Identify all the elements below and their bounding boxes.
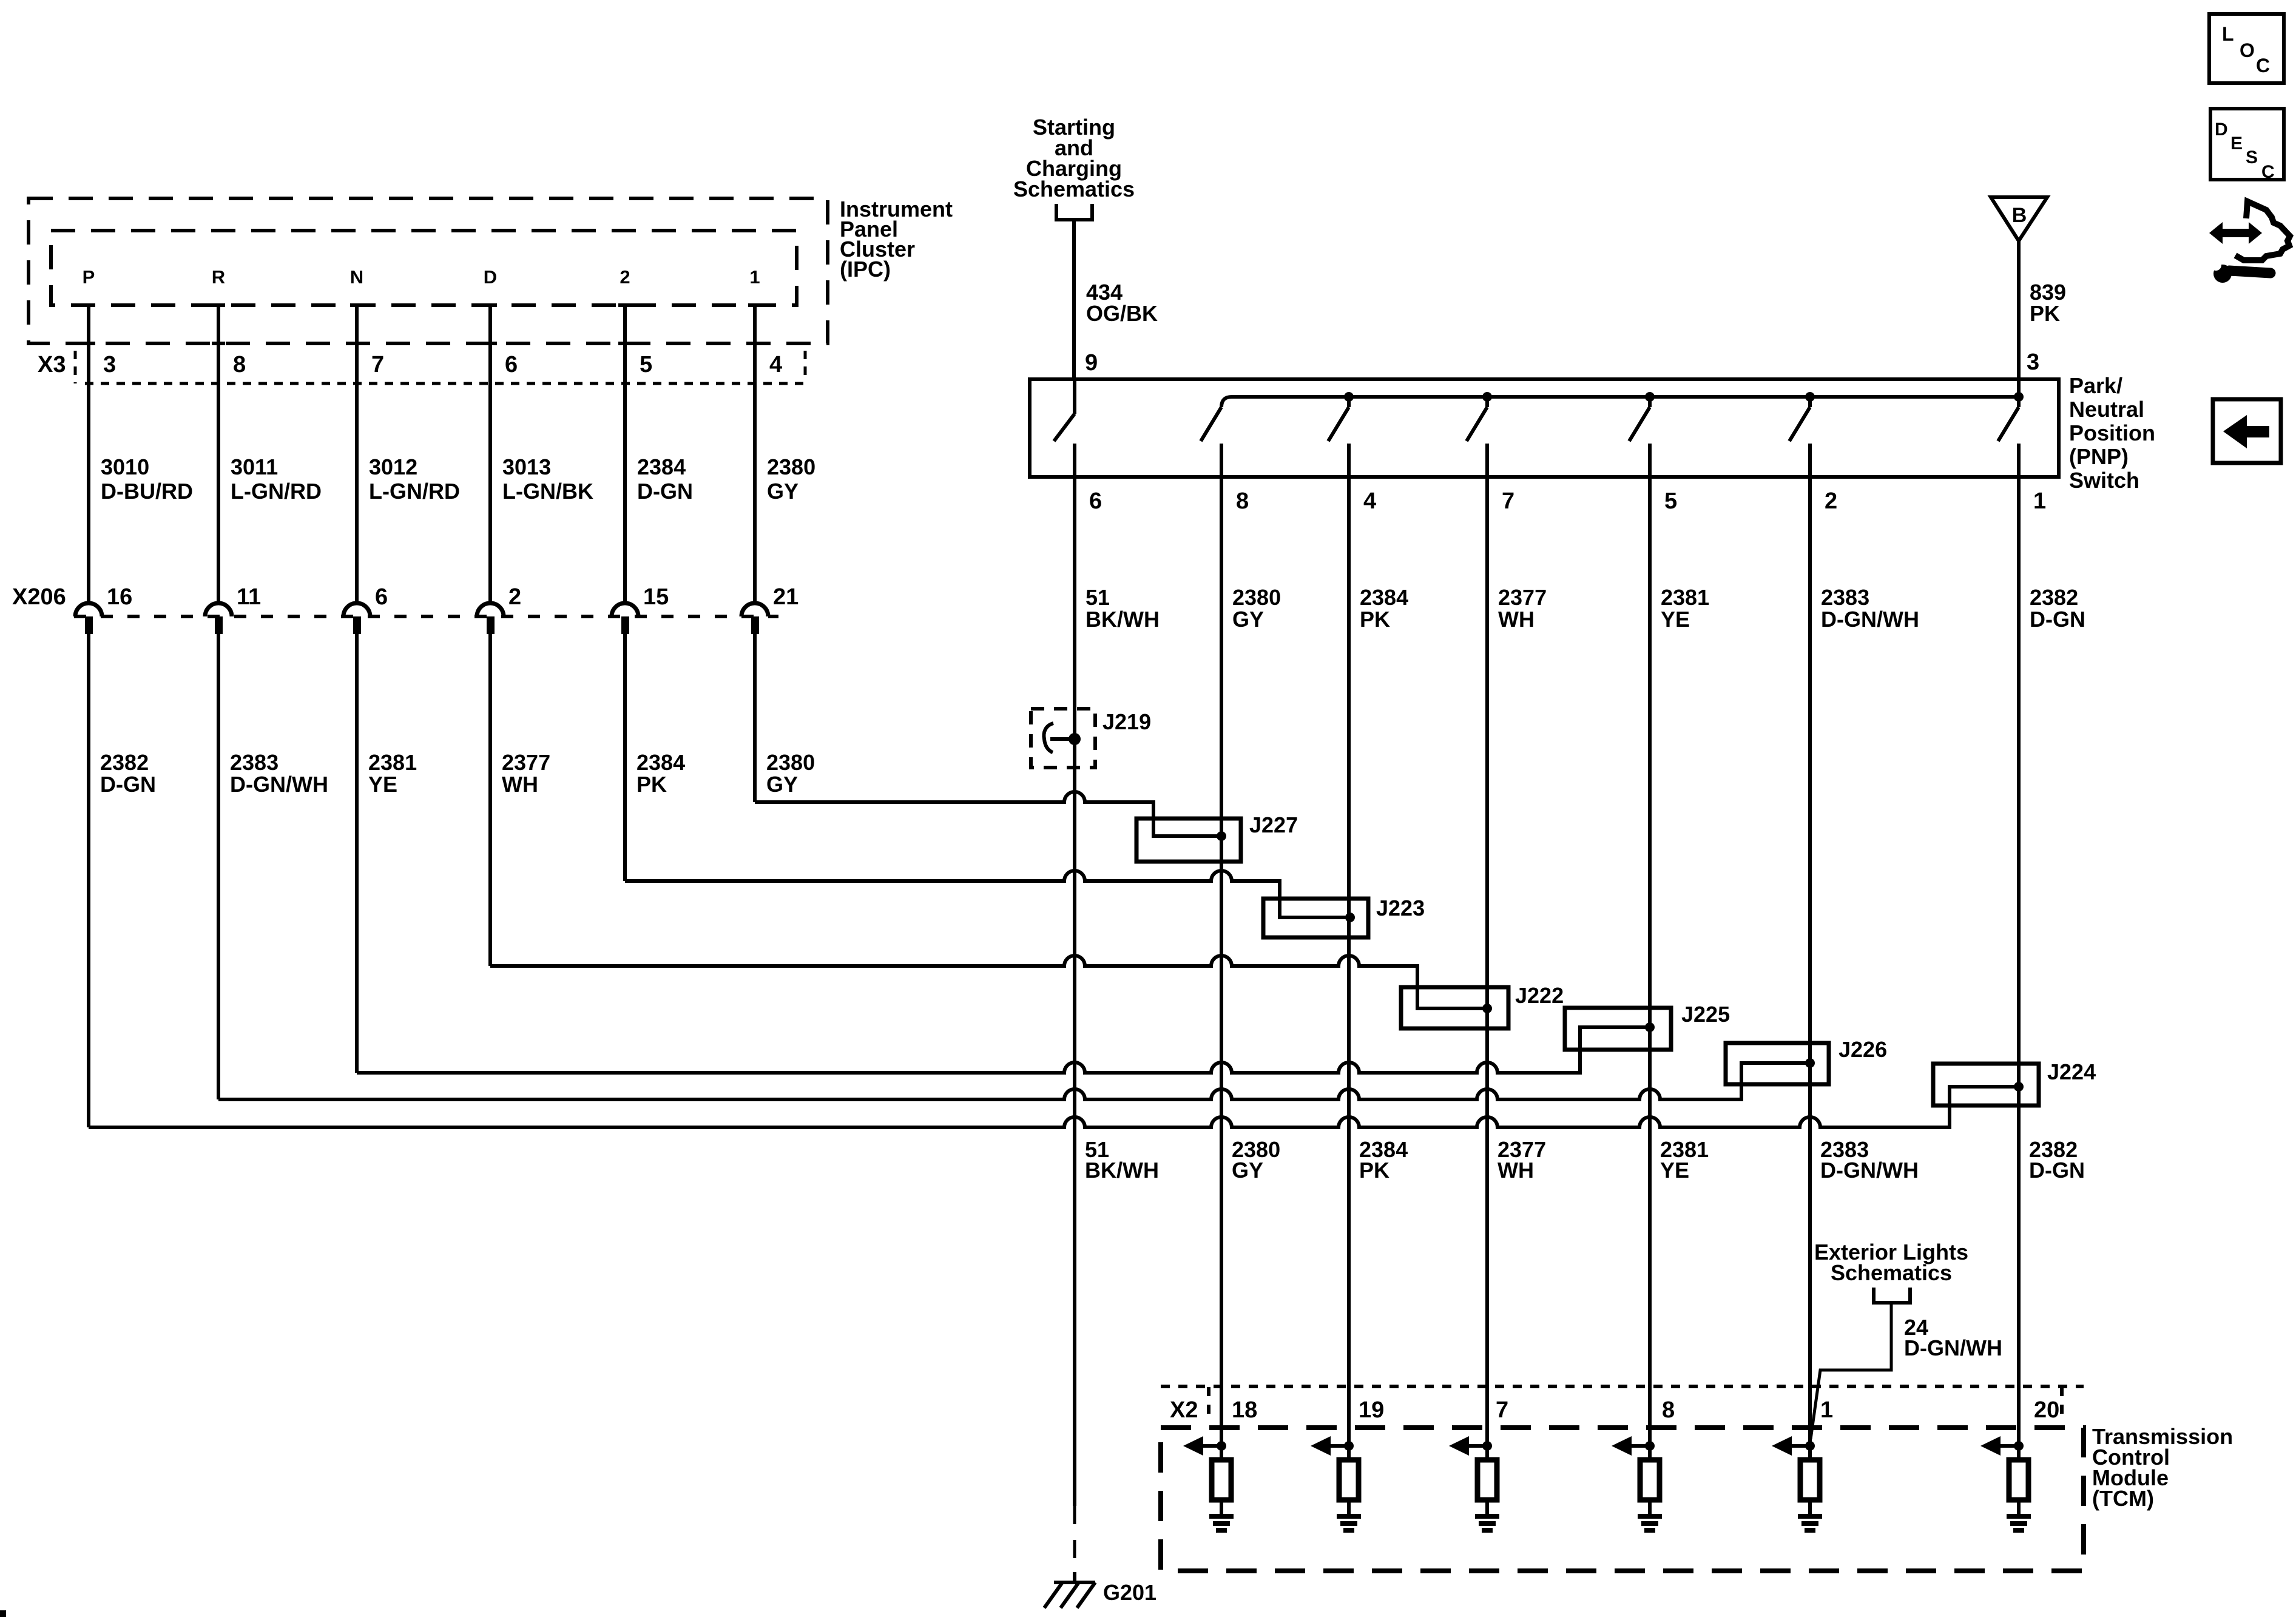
svg-text:WH: WH — [1498, 607, 1535, 632]
svg-text:C: C — [2261, 162, 2275, 182]
svg-text:8: 8 — [233, 352, 246, 377]
svg-text:4: 4 — [769, 352, 782, 377]
svg-text:PK: PK — [2030, 301, 2060, 326]
svg-text:D-BU/RD: D-BU/RD — [101, 479, 193, 504]
svg-text:21: 21 — [773, 584, 799, 610]
svg-text:PK: PK — [1360, 607, 1390, 632]
svg-text:2380: 2380 — [766, 750, 815, 775]
svg-text:PK: PK — [1359, 1158, 1389, 1183]
svg-text:3013: 3013 — [502, 454, 551, 479]
svg-text:J219: J219 — [1102, 709, 1151, 734]
svg-text:2380: 2380 — [1232, 585, 1281, 610]
svg-text:4: 4 — [1363, 488, 1376, 514]
svg-text:N: N — [350, 266, 363, 288]
svg-text:2: 2 — [620, 266, 630, 288]
svg-text:(TCM): (TCM) — [2092, 1486, 2154, 1511]
svg-text:D-GN: D-GN — [637, 479, 693, 504]
svg-text:6: 6 — [1089, 488, 1102, 514]
svg-text:D-GN/WH: D-GN/WH — [1820, 1158, 1919, 1183]
svg-text:3: 3 — [103, 352, 116, 377]
svg-text:2381: 2381 — [1661, 585, 1709, 610]
svg-text:9: 9 — [1085, 350, 1098, 376]
svg-text:YE: YE — [368, 772, 397, 797]
svg-text:2383: 2383 — [1821, 585, 1869, 610]
svg-text:6: 6 — [375, 584, 388, 610]
svg-text:1: 1 — [1820, 1397, 1833, 1423]
svg-text:7: 7 — [1496, 1397, 1508, 1423]
svg-text:8: 8 — [1662, 1397, 1675, 1423]
svg-text:3011: 3011 — [231, 454, 278, 479]
svg-text:GY: GY — [767, 479, 799, 504]
svg-text:3: 3 — [2027, 349, 2039, 375]
svg-text:3012: 3012 — [369, 454, 417, 479]
svg-text:L: L — [2222, 23, 2234, 45]
svg-text:B: B — [2012, 204, 2027, 227]
svg-text:L-GN/RD: L-GN/RD — [369, 479, 460, 504]
svg-text:J226: J226 — [1838, 1037, 1887, 1062]
svg-text:2381: 2381 — [368, 750, 417, 775]
svg-text:2377: 2377 — [1498, 585, 1547, 610]
svg-text:YE: YE — [1660, 1158, 1689, 1183]
svg-text:X3: X3 — [38, 352, 66, 377]
svg-text:11: 11 — [237, 584, 261, 610]
svg-text:S: S — [2246, 147, 2258, 167]
svg-text:D-GN: D-GN — [2029, 1158, 2085, 1183]
svg-text:2382: 2382 — [2030, 585, 2078, 610]
svg-text:Schematics: Schematics — [1831, 1260, 1952, 1285]
svg-text:D-GN/WH: D-GN/WH — [230, 772, 328, 797]
svg-text:J224: J224 — [2047, 1059, 2096, 1084]
svg-text:X2: X2 — [1170, 1397, 1198, 1423]
svg-text:Position: Position — [2069, 420, 2155, 445]
svg-text:(PNP): (PNP) — [2069, 444, 2129, 469]
svg-text:J225: J225 — [1681, 1002, 1730, 1027]
svg-text:2: 2 — [508, 584, 521, 610]
svg-text:5: 5 — [640, 352, 652, 377]
svg-text:BK/WH: BK/WH — [1085, 1158, 1159, 1183]
svg-text:O: O — [2240, 39, 2255, 61]
svg-text:16: 16 — [107, 584, 132, 610]
svg-text:3010: 3010 — [101, 454, 149, 479]
svg-text:GY: GY — [1232, 1158, 1263, 1183]
svg-text:OG/BK: OG/BK — [1086, 301, 1158, 326]
svg-text:D-GN: D-GN — [100, 772, 156, 797]
svg-text:Neutral: Neutral — [2069, 397, 2144, 422]
svg-text:2384: 2384 — [636, 750, 685, 775]
svg-text:BK/WH: BK/WH — [1086, 607, 1160, 632]
svg-text:15: 15 — [643, 584, 669, 610]
svg-text:D: D — [484, 266, 497, 288]
svg-text:20: 20 — [2034, 1397, 2059, 1423]
svg-text:J222: J222 — [1515, 983, 1564, 1008]
svg-text:G201: G201 — [1103, 1580, 1156, 1605]
svg-text:2377: 2377 — [502, 750, 550, 775]
svg-text:8: 8 — [1236, 488, 1249, 514]
svg-text:R: R — [212, 266, 225, 288]
svg-text:GY: GY — [1232, 607, 1264, 632]
svg-text:18: 18 — [1232, 1397, 1257, 1423]
svg-text:X206: X206 — [12, 584, 66, 610]
svg-text:J223: J223 — [1376, 896, 1425, 920]
svg-text:2384: 2384 — [637, 454, 686, 479]
svg-text:D-GN: D-GN — [2030, 607, 2085, 632]
svg-text:D: D — [2215, 120, 2228, 140]
svg-text:7: 7 — [371, 352, 384, 377]
svg-text:L-GN/RD: L-GN/RD — [231, 479, 322, 504]
svg-text:1: 1 — [749, 266, 760, 288]
svg-text:D-GN/WH: D-GN/WH — [1904, 1335, 2002, 1360]
svg-text:2383: 2383 — [230, 750, 279, 775]
svg-text:PK: PK — [636, 772, 667, 797]
svg-text:6: 6 — [505, 352, 518, 377]
svg-text:YE: YE — [1661, 607, 1690, 632]
svg-text:P: P — [83, 266, 95, 288]
svg-text:L-GN/BK: L-GN/BK — [502, 479, 593, 504]
svg-text:Park/: Park/ — [2069, 373, 2122, 398]
svg-text:51: 51 — [1086, 585, 1110, 610]
svg-text:(IPC): (IPC) — [840, 257, 891, 282]
svg-text:1: 1 — [2033, 488, 2046, 514]
svg-text:2: 2 — [1825, 488, 1837, 514]
svg-text:WH: WH — [502, 772, 538, 797]
svg-text:GY: GY — [766, 772, 798, 797]
svg-text:2380: 2380 — [767, 454, 815, 479]
svg-text:WH: WH — [1497, 1158, 1534, 1183]
svg-text:D-GN/WH: D-GN/WH — [1821, 607, 1919, 632]
svg-text:5: 5 — [1664, 488, 1677, 514]
svg-text:E: E — [2230, 133, 2243, 154]
svg-text:J227: J227 — [1249, 812, 1298, 837]
svg-text:Switch: Switch — [2069, 468, 2139, 493]
svg-text:C: C — [2256, 55, 2270, 76]
svg-text:2384: 2384 — [1360, 585, 1408, 610]
svg-text:2382: 2382 — [100, 750, 149, 775]
svg-text:Schematics: Schematics — [1013, 177, 1135, 201]
svg-text:7: 7 — [1502, 488, 1514, 514]
svg-text:19: 19 — [1359, 1397, 1384, 1423]
